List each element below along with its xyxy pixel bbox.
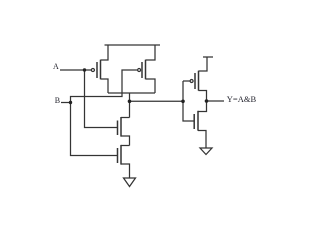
svg-text:A: A xyxy=(53,62,59,71)
svg-text:B: B xyxy=(55,96,60,105)
svg-text:Y=A&B: Y=A&B xyxy=(227,94,257,104)
